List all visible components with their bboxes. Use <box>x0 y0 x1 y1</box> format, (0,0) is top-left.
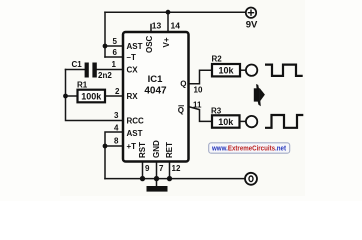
svg-text:11: 11 <box>193 100 202 109</box>
svg-text:3: 3 <box>114 111 119 120</box>
svg-text:6: 6 <box>113 48 118 57</box>
svg-text:13: 13 <box>152 21 162 31</box>
svg-text:8: 8 <box>114 137 119 146</box>
svg-text:4: 4 <box>114 124 119 133</box>
svg-text:10: 10 <box>194 85 203 94</box>
svg-text:10k: 10k <box>218 66 234 76</box>
svg-text:9: 9 <box>145 164 150 173</box>
svg-text:C1: C1 <box>72 60 83 69</box>
svg-text:RCC: RCC <box>127 116 145 125</box>
svg-text:AST: AST <box>127 42 143 51</box>
svg-text:5: 5 <box>113 37 118 46</box>
svg-text:www.ExtremeCircuits.net: www.ExtremeCircuits.net <box>211 146 286 153</box>
svg-text:R2: R2 <box>212 55 223 64</box>
svg-text:R1: R1 <box>77 81 88 90</box>
svg-text:2n2: 2n2 <box>98 71 112 80</box>
svg-text:AST: AST <box>127 129 143 138</box>
svg-text:10k: 10k <box>218 117 234 127</box>
svg-text:Q: Q <box>178 106 184 115</box>
svg-text:–T: –T <box>127 53 136 62</box>
svg-text:RET: RET <box>165 142 174 158</box>
svg-text:9V: 9V <box>246 20 258 31</box>
svg-text:V+: V+ <box>162 37 171 47</box>
svg-text:100k: 100k <box>81 91 102 101</box>
svg-text:12: 12 <box>172 164 181 173</box>
svg-text:4047: 4047 <box>144 86 167 97</box>
svg-text:RX: RX <box>127 92 139 101</box>
svg-text:R3: R3 <box>211 107 222 116</box>
svg-text:Q: Q <box>180 79 186 88</box>
svg-text:OSC: OSC <box>145 35 154 53</box>
svg-text:7: 7 <box>159 164 164 173</box>
svg-text:2: 2 <box>115 87 120 96</box>
svg-text:+T: +T <box>127 142 137 151</box>
svg-text:IC1: IC1 <box>148 74 164 85</box>
svg-text:CX: CX <box>127 65 139 74</box>
svg-text:1: 1 <box>112 60 117 69</box>
svg-text:GND: GND <box>152 140 161 158</box>
svg-text:14: 14 <box>171 21 181 31</box>
svg-text:RST: RST <box>138 142 147 158</box>
